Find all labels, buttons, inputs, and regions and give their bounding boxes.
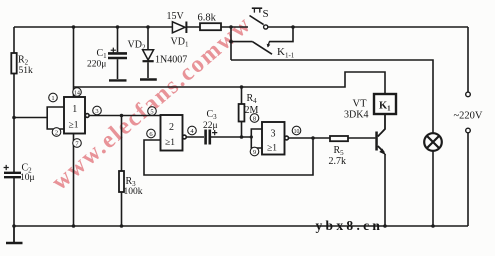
svg-text:R4: R4: [247, 93, 258, 105]
svg-text:51k: 51k: [19, 66, 34, 76]
svg-text:K1-1: K1-1: [277, 46, 295, 60]
svg-text:S: S: [263, 8, 269, 20]
svg-text:14: 14: [74, 90, 80, 96]
svg-text:VD2: VD2: [128, 40, 146, 52]
svg-text:22μ: 22μ: [203, 121, 218, 131]
svg-text:3DK4: 3DK4: [344, 110, 368, 121]
svg-text:2M: 2M: [245, 105, 259, 116]
svg-text:8: 8: [253, 115, 256, 122]
svg-text:15V: 15V: [167, 11, 185, 22]
svg-text:R2: R2: [18, 55, 29, 67]
svg-text:~220V: ~220V: [454, 111, 483, 122]
svg-text:3: 3: [95, 108, 98, 115]
svg-text:5: 5: [150, 108, 153, 115]
svg-text:1: 1: [51, 95, 54, 102]
svg-text:2: 2: [169, 122, 174, 133]
svg-text:≥1: ≥1: [165, 138, 175, 148]
svg-text:10: 10: [294, 129, 300, 135]
svg-text:3: 3: [271, 129, 276, 140]
svg-text:2.7k: 2.7k: [329, 156, 347, 167]
svg-text:C3: C3: [207, 109, 218, 121]
svg-text:6.8k: 6.8k: [198, 13, 217, 24]
svg-text:220μ: 220μ: [87, 60, 106, 70]
svg-text:10μ: 10μ: [20, 173, 35, 183]
svg-text:≥1: ≥1: [69, 121, 79, 131]
svg-text:≥1: ≥1: [267, 144, 277, 154]
svg-text:VD1: VD1: [171, 37, 189, 49]
svg-text:1: 1: [72, 104, 77, 115]
svg-text:C1: C1: [97, 48, 108, 60]
svg-text:100k: 100k: [124, 187, 143, 197]
svg-text:1N4007: 1N4007: [155, 55, 187, 66]
svg-text:ybx8.cn: ybx8.cn: [316, 218, 384, 233]
svg-text:2: 2: [55, 129, 58, 136]
svg-text:VT: VT: [353, 99, 368, 110]
svg-text:9: 9: [253, 149, 256, 156]
